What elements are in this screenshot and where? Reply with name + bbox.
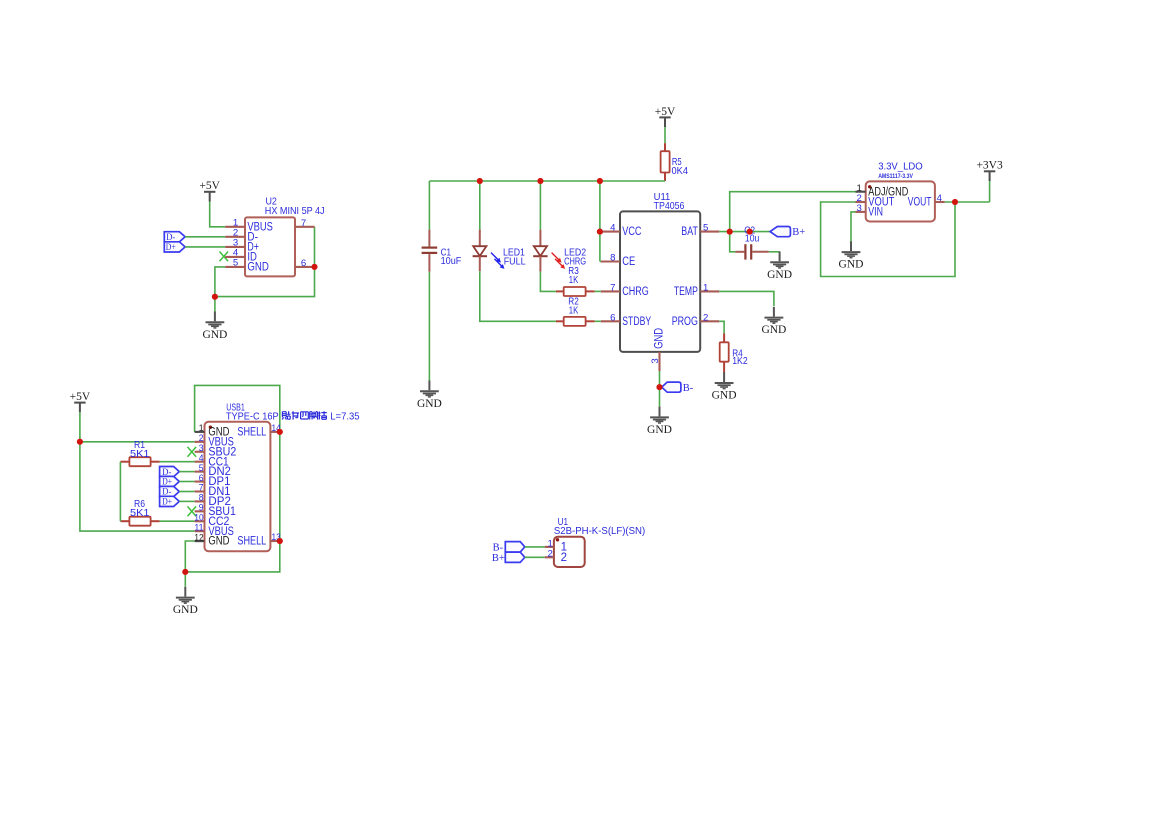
USB1 pin numbers bbox=[194, 423, 281, 543]
net flag D+ (USB1 row 481.5) bbox=[160, 476, 180, 486]
svg-text:GND: GND bbox=[173, 604, 198, 616]
wire flag to pin bbox=[179, 500, 194, 502]
wire LED2 to R3 row bbox=[540, 272, 556, 292]
svg-text:FULL: FULL bbox=[504, 257, 526, 268]
svg-text:B-: B- bbox=[683, 383, 694, 394]
wire rail down to LED1 bbox=[479, 181, 481, 230]
svg-text:2: 2 bbox=[703, 312, 708, 323]
svg-text:D+: D+ bbox=[162, 497, 172, 508]
svg-text:10u: 10u bbox=[745, 233, 759, 244]
U11 pin names bbox=[622, 226, 698, 349]
wire ADJ/GND to BAT node bbox=[730, 192, 856, 232]
svg-text:TP4056: TP4056 bbox=[654, 201, 685, 212]
wire TEMP to GND bbox=[719, 291, 774, 306]
U2 pin names bbox=[247, 221, 273, 273]
ground GND-C2 bbox=[767, 252, 792, 281]
wire U2 pin5 GND to junction bbox=[215, 267, 225, 297]
svg-text:GND: GND bbox=[247, 262, 269, 274]
wire C1 to GND bbox=[428, 272, 430, 381]
wire R6 to USB1 pin10 CC2 bbox=[160, 520, 195, 522]
resistor R3 1K bbox=[556, 287, 595, 296]
svg-text:VCC: VCC bbox=[622, 226, 641, 238]
junction dot overlay bbox=[77, 178, 958, 575]
net flag D- (U2 pin2) bbox=[164, 232, 185, 242]
wire R1 to USB1 pin4 CC1 bbox=[160, 461, 195, 463]
power flag +5V-U2 bbox=[199, 180, 220, 201]
svg-text:GND: GND bbox=[654, 328, 666, 349]
capacitor C1 10uF bbox=[422, 230, 438, 272]
svg-text:B+: B+ bbox=[492, 553, 505, 564]
wire rail down to C1 bbox=[428, 181, 430, 230]
svg-text:6: 6 bbox=[301, 258, 306, 269]
svg-text:6: 6 bbox=[610, 312, 615, 323]
wire C2 to GND bbox=[769, 251, 780, 253]
wire +5V down to junction bbox=[79, 412, 81, 442]
wire BAT to B+ node bbox=[719, 231, 770, 233]
svg-text:SHELL: SHELL bbox=[237, 427, 266, 439]
svg-text:7: 7 bbox=[301, 218, 306, 229]
svg-text:8: 8 bbox=[610, 253, 615, 264]
LDO pin numbers bbox=[856, 183, 942, 214]
svg-text:10uF: 10uF bbox=[441, 256, 462, 267]
junction +5V/USB1 bbox=[77, 439, 83, 445]
wire D+ to U2 pin3 bbox=[185, 246, 225, 248]
USB1 pin names bbox=[208, 427, 266, 548]
wire BAT junction down to C2 bbox=[730, 232, 736, 252]
svg-text:SHELL: SHELL bbox=[237, 536, 266, 548]
wire rail down to VCC and CE bbox=[599, 181, 601, 262]
no-connect X on USB1 pin9 SBU1 bbox=[188, 506, 197, 516]
wire flag to pin bbox=[179, 491, 194, 493]
wire D- to U2 pin2 bbox=[185, 236, 225, 238]
svg-text:BAT: BAT bbox=[681, 226, 698, 238]
wire flag to pin bbox=[179, 471, 194, 473]
junction B- node bbox=[657, 384, 663, 390]
svg-text:TEMP: TEMP bbox=[674, 286, 698, 298]
ground GND-R4 bbox=[712, 372, 737, 401]
connector U1 S2B-PH-K-S(LF)(SN) bbox=[545, 537, 585, 567]
ground GND-LDO bbox=[839, 241, 864, 270]
svg-text:+5V: +5V bbox=[70, 391, 91, 403]
wire +5V to R5 bbox=[664, 127, 666, 143]
junction BAT 2 bbox=[747, 229, 753, 235]
svg-text:GND: GND bbox=[761, 324, 786, 336]
svg-text:B-: B- bbox=[493, 542, 504, 553]
wire B+ to U1 pin2 bbox=[525, 556, 545, 558]
junction rail VCC branch bbox=[597, 178, 603, 184]
wire LED1 to R2 row bbox=[480, 271, 556, 321]
resistor R5 0K4 (vertical) bbox=[661, 143, 670, 181]
svg-text:PROG: PROG bbox=[672, 316, 698, 328]
svg-text:GND: GND bbox=[767, 269, 792, 281]
wire bottom junction to GND bbox=[184, 572, 186, 587]
svg-text:+5V: +5V bbox=[655, 106, 676, 118]
LDO pin names bbox=[868, 186, 931, 218]
ground GND-C1 bbox=[417, 381, 442, 410]
wire U2 pin7 to pin6 down to GND net bbox=[215, 227, 315, 312]
wire to CE pin bbox=[600, 261, 601, 263]
svg-text:4: 4 bbox=[937, 193, 943, 204]
junction rail LED2 bbox=[537, 178, 543, 184]
wire R1 to R6 left bracket bbox=[119, 462, 121, 522]
LED LED2 CHRG (red) bbox=[533, 230, 564, 272]
connector U2 HX MINI 5P 4J bbox=[225, 217, 314, 276]
svg-text:STDBY: STDBY bbox=[622, 316, 651, 328]
ground GND-U11 bbox=[647, 407, 672, 436]
svg-text:GND: GND bbox=[202, 329, 227, 341]
wire +5V to U2 pin1 bbox=[210, 202, 226, 227]
wire USB1 pin12 GND to bottom junction bbox=[185, 541, 194, 572]
no-connect X on U2 pin4 ID bbox=[220, 252, 229, 262]
wire PROG to R4 bbox=[719, 321, 724, 333]
svg-text:CHRG: CHRG bbox=[622, 286, 649, 298]
wire +5V down-left to USB1 pin11 VBUS bbox=[80, 442, 195, 531]
svg-text:AMS1117-3.3V: AMS1117-3.3V bbox=[878, 174, 913, 180]
net flag D- (USB1 row 471.6) bbox=[160, 467, 180, 477]
ground GND-U2 bbox=[202, 312, 227, 341]
svg-text:5: 5 bbox=[233, 258, 238, 269]
svg-text:TYPE-C 16P: TYPE-C 16P bbox=[226, 412, 279, 423]
wire to VCC pin bbox=[600, 231, 601, 233]
svg-text:7: 7 bbox=[610, 282, 615, 293]
svg-text:1K2: 1K2 bbox=[732, 356, 748, 367]
power flag +3V3 bbox=[976, 160, 1003, 181]
resistor R6 5K1 bbox=[120, 517, 159, 526]
wire flag to pin bbox=[179, 481, 194, 483]
wire VOUT to +3V3 bbox=[945, 201, 990, 203]
svg-text:B+: B+ bbox=[792, 227, 805, 238]
net flag B+ (U1 pin2) bbox=[505, 552, 525, 562]
wire VOUT pin2 loop to pin4 bbox=[821, 202, 955, 277]
U11 pin numbers bbox=[610, 223, 708, 364]
net flag B- (battery negative) bbox=[662, 382, 681, 392]
wire R3 to U11 CHRG bbox=[595, 290, 601, 292]
wire R2 to U11 STDBY bbox=[595, 320, 601, 322]
net flag D+ (U2 pin3) bbox=[164, 242, 185, 252]
U2 pin numbers bbox=[233, 218, 306, 269]
svg-text:D+: D+ bbox=[166, 242, 176, 253]
U1 anchor dot bbox=[556, 538, 559, 541]
resistor R1 5K1 bbox=[120, 457, 159, 466]
IC U11 TP4056 bbox=[601, 211, 719, 371]
net flag D- (USB1 row 491.5) bbox=[160, 486, 180, 496]
svg-text:2: 2 bbox=[548, 549, 553, 560]
svg-text:GND: GND bbox=[208, 536, 229, 548]
wire B- to U1 pin1 bbox=[525, 546, 545, 548]
USB1 anchor dot bbox=[209, 426, 212, 429]
svg-text:+5V: +5V bbox=[199, 180, 220, 192]
svg-text:1K: 1K bbox=[569, 305, 579, 316]
resistor R2 1K bbox=[556, 317, 595, 326]
junction BAT 1 bbox=[727, 229, 733, 235]
connector USB1 TYPE-C 16P bbox=[195, 422, 280, 551]
resistor R4 1K2 (vertical) bbox=[720, 334, 729, 373]
ground GND-TEMP bbox=[761, 307, 786, 336]
svg-text:1: 1 bbox=[703, 282, 708, 293]
svg-text:5K1: 5K1 bbox=[130, 449, 150, 460]
wire U11 pin3 GND down bbox=[659, 371, 661, 407]
svg-text:5K1: 5K1 bbox=[130, 508, 150, 519]
svg-text:HX MINI 5P 4J: HX MINI 5P 4J bbox=[265, 206, 325, 217]
net flag B+ (battery positive) bbox=[770, 227, 790, 237]
USB1 CJK label glyphs bbox=[282, 411, 327, 419]
svg-text:GND: GND bbox=[839, 259, 864, 271]
svg-text:GND: GND bbox=[647, 424, 672, 436]
power flag +5V-USB1 bbox=[70, 391, 91, 412]
ground GND-USB1 bbox=[173, 587, 198, 616]
svg-text:2: 2 bbox=[561, 552, 567, 564]
svg-text:12: 12 bbox=[194, 532, 203, 543]
net flag B- (U1 pin1) bbox=[505, 542, 525, 553]
junction VOUT node bbox=[952, 199, 958, 205]
svg-text:GND: GND bbox=[712, 390, 737, 402]
svg-text:VIN: VIN bbox=[868, 206, 883, 218]
svg-text:CE: CE bbox=[622, 256, 635, 268]
svg-text:3: 3 bbox=[856, 203, 861, 214]
capacitor C2 10u bbox=[736, 244, 769, 259]
wire VIN to GND bbox=[851, 212, 856, 242]
svg-text:+3V3: +3V3 bbox=[976, 160, 1003, 172]
junction U2 pin6 bbox=[312, 264, 318, 270]
wire rail down to LED2 bbox=[539, 181, 541, 230]
svg-text:VOUT: VOUT bbox=[908, 197, 932, 209]
power flag +5V-R5 bbox=[655, 106, 676, 127]
svg-text:1K: 1K bbox=[569, 275, 579, 286]
regulator 3.3V_LDO AMS1117-3.3V bbox=[856, 181, 945, 221]
junction VCC row bbox=[597, 229, 603, 235]
svg-text:GND: GND bbox=[417, 398, 442, 410]
LED LED1 FULL (blue) bbox=[473, 230, 504, 272]
svg-text:4: 4 bbox=[610, 223, 616, 234]
net flag D+ (USB1 row 501.4) bbox=[160, 496, 180, 506]
svg-text:3.3V_LDO: 3.3V_LDO bbox=[878, 162, 923, 173]
junction USB1 pin14 SHELL bbox=[277, 429, 283, 435]
junction U2 GND node bbox=[212, 294, 218, 300]
no-connect X on USB1 pin3 SBU2 bbox=[188, 447, 197, 457]
svg-text:1: 1 bbox=[548, 538, 553, 549]
LDO anchor dot bbox=[868, 185, 871, 188]
junction USB1 GND node bbox=[182, 569, 188, 575]
wire top rail R5 to C1 bbox=[429, 180, 665, 182]
junction rail LED1 bbox=[477, 178, 483, 184]
svg-text:0K4: 0K4 bbox=[672, 166, 689, 177]
svg-text:S2B-PH-K-S(LF)(SN): S2B-PH-K-S(LF)(SN) bbox=[554, 526, 645, 537]
svg-text:5: 5 bbox=[703, 223, 708, 234]
wire USB1 pin1 GND up over to SHELL pins bbox=[185, 385, 279, 572]
svg-text:L=7.35: L=7.35 bbox=[330, 412, 360, 423]
svg-text:3: 3 bbox=[650, 358, 661, 363]
junction USB1 pin13 SHELL bbox=[277, 538, 283, 544]
wire +5V junction to USB1 pin2 VBUS bbox=[80, 441, 195, 443]
